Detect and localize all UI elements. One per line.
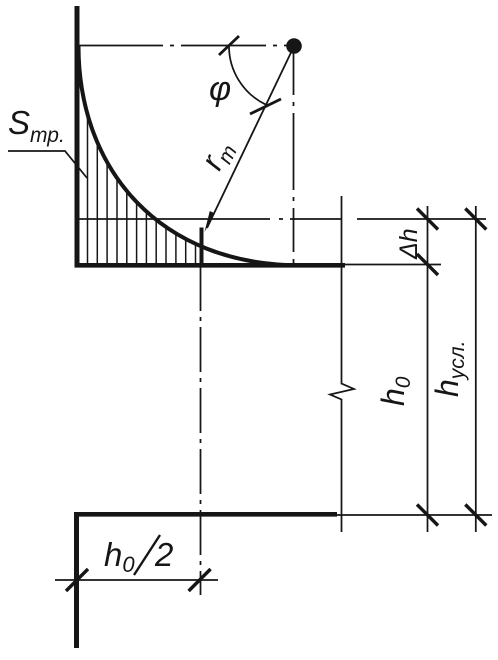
r_m label (rotated along radius) xyxy=(193,134,241,177)
horizontal centre line at crater top xyxy=(78,45,288,47)
thin level line at delta-h top xyxy=(79,218,486,220)
h0 label (rotated) xyxy=(375,376,415,406)
h_usl label (rotated) xyxy=(429,341,469,397)
extension line with break symbol xyxy=(330,196,354,532)
tick at (475.8,515) xyxy=(465,505,486,526)
arc tick bottom xyxy=(250,99,281,114)
tick at (427.5,264.5) xyxy=(417,254,438,275)
bottom step: thick vertical wall xyxy=(74,512,79,648)
h0/2 dimension line xyxy=(55,579,218,581)
centre line below tangent point (dash-dot) xyxy=(200,266,202,595)
arc tick top xyxy=(219,36,239,55)
left wall (thick vertical) xyxy=(75,6,80,268)
hatching of area S_tr xyxy=(88,115,196,264)
svg-text:φ: φ xyxy=(209,70,231,108)
tick at (427.5,219) xyxy=(417,209,438,230)
baseline extension thin line xyxy=(345,264,441,266)
tick at (427.5,515) xyxy=(417,505,438,526)
dimension line h0 (vertical) xyxy=(427,206,429,532)
tangent point thick bar xyxy=(200,228,204,267)
radius line r_m xyxy=(207,52,292,229)
delta-h label (rotated) xyxy=(395,228,423,260)
bottom dimension base thin line xyxy=(337,514,492,516)
funnel curve (thick) xyxy=(79,46,301,265)
fraction slash of h0/2 xyxy=(134,535,160,575)
tick at (77,580) xyxy=(66,569,88,591)
vertical centre line below vertex dot xyxy=(293,51,295,265)
svg-text:2: 2 xyxy=(154,536,173,573)
arrowhead of r_m xyxy=(205,211,215,232)
tick at (475.8,219) xyxy=(465,209,486,230)
leader line of S_tr xyxy=(8,151,87,178)
dimension line h_usl (vertical) xyxy=(475,206,477,532)
svg-text:Δh: Δh xyxy=(395,228,423,260)
vertex dot xyxy=(286,38,302,54)
bottom step: thick horizontal xyxy=(74,512,337,517)
baseline (thick horizontal) xyxy=(75,263,346,268)
angle arc phi xyxy=(229,45,266,105)
tick at (199.6,580) xyxy=(189,569,211,591)
